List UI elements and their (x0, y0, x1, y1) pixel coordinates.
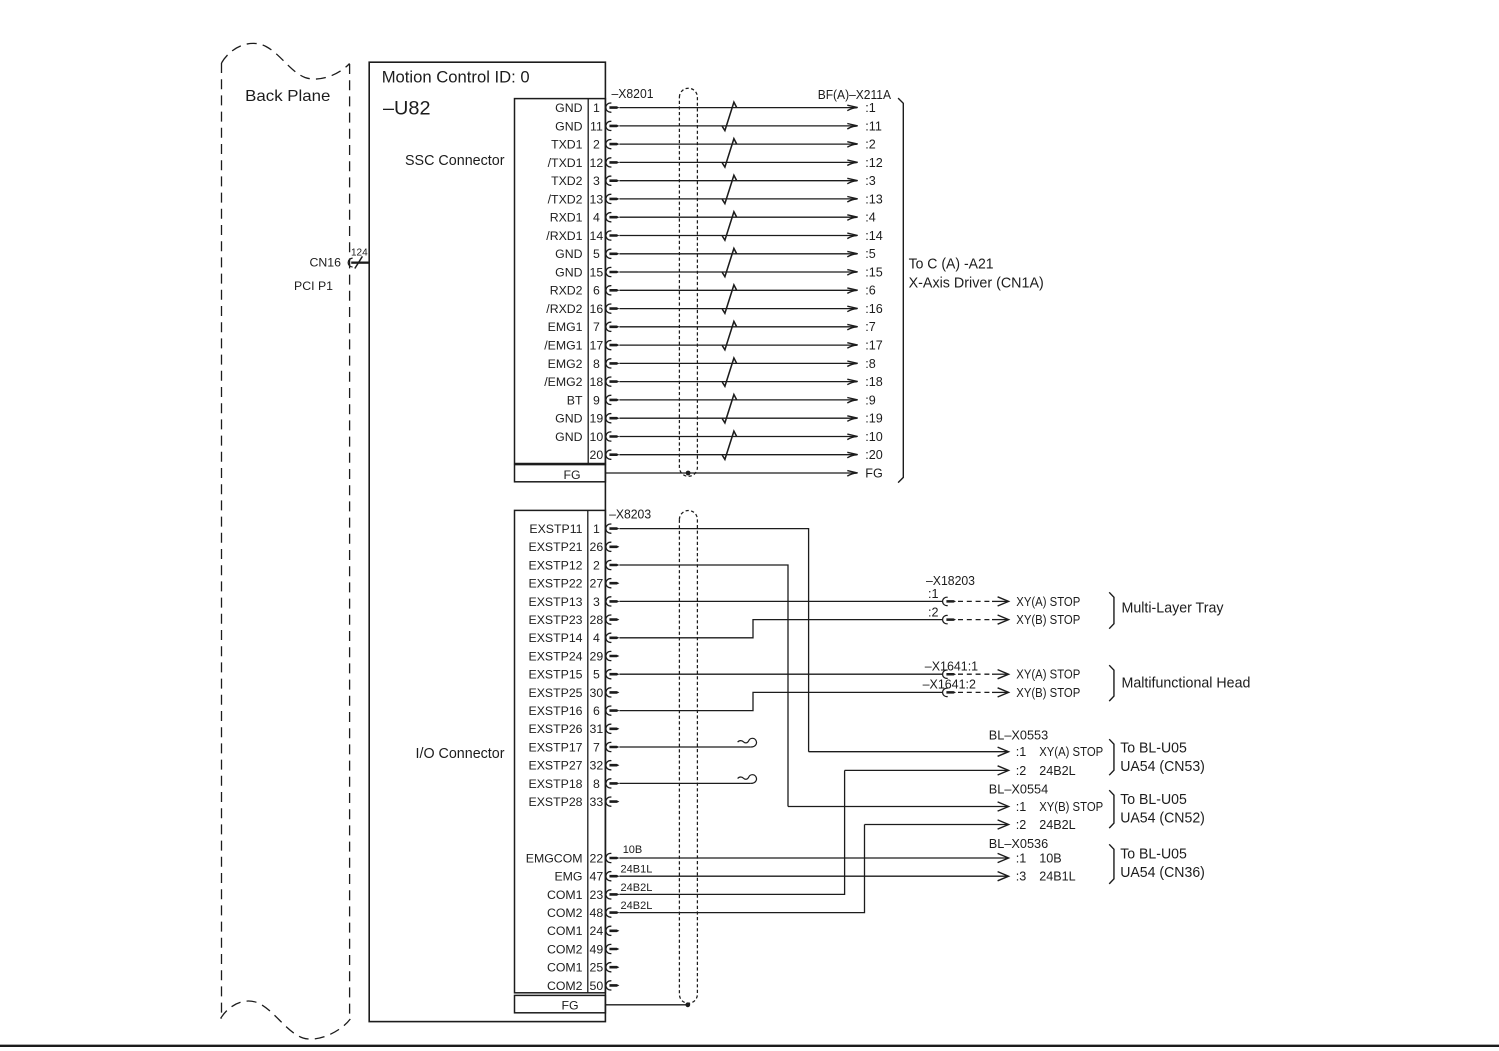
SSC pin 7 EMG1 (548, 320, 600, 334)
net label :12 (865, 156, 883, 170)
wire to BL-X0553:1 (809, 751, 1008, 753)
shield junction dot (685, 1002, 690, 1007)
wire to BL-X0554:2 (865, 824, 1008, 826)
wire EXSTP18 pin8 (cut, coiled) (619, 782, 750, 784)
pair mark pins 8/18 (722, 358, 736, 386)
svg-text:Multi-Layer Tray: Multi-Layer Tray (1122, 600, 1225, 616)
wire EXSTP16 pin6 to X1641:2 (619, 692, 943, 710)
svg-text:CN16: CN16 (310, 256, 342, 270)
pair mark pins 10/20 (722, 431, 736, 459)
socket X1641:1 (943, 670, 948, 678)
svg-text::16: :16 (865, 302, 883, 316)
pair mark pins 2/12 (722, 139, 736, 167)
wire to BL-X0554:1 (788, 806, 1008, 808)
svg-text:15: 15 (590, 265, 604, 279)
svg-text:11: 11 (590, 119, 603, 133)
svg-text:RXD2: RXD2 (550, 284, 583, 298)
I/O pin 25 COM1 (547, 961, 603, 975)
svg-text:XY(A) STOP: XY(A) STOP (1039, 745, 1103, 759)
SSC pin 8 EMG2 (548, 357, 600, 371)
svg-text:4: 4 (593, 631, 600, 645)
svg-text:5: 5 (593, 247, 600, 261)
svg-text:–X1641:2: –X1641:2 (923, 677, 976, 692)
page frame bottom line (0, 1045, 1499, 1047)
svg-text:/TXD2: /TXD2 (548, 192, 583, 206)
svg-text:EXSTP24: EXSTP24 (529, 649, 583, 663)
svg-text:24B2L: 24B2L (1039, 764, 1075, 778)
net label :14 (865, 229, 883, 243)
svg-text:33: 33 (590, 795, 604, 809)
svg-text:COM2: COM2 (547, 979, 583, 993)
net label :13 (865, 192, 883, 206)
svg-text:124: 124 (351, 248, 368, 259)
pair mark pins 1/11 (722, 102, 736, 130)
svg-text:–X18203: –X18203 (926, 573, 975, 588)
svg-text:24: 24 (590, 924, 604, 938)
svg-text:–X1641:1: –X1641:1 (925, 658, 978, 673)
bracket to BL-U05 UA54 CN52 (1109, 790, 1114, 828)
svg-text:14: 14 (590, 229, 604, 243)
cable shield X8201 (dashed oval) (679, 88, 697, 476)
Back Plane bottom wavy edge (221, 1001, 351, 1039)
svg-text:25: 25 (590, 961, 604, 975)
svg-text:/EMG2: /EMG2 (544, 375, 582, 389)
svg-text:–X8201: –X8201 (612, 86, 654, 101)
svg-text:FG: FG (561, 999, 578, 1013)
svg-text:To BL-U05: To BL-U05 (1120, 792, 1187, 808)
svg-text:22: 22 (590, 851, 604, 865)
net label :16 (865, 302, 883, 316)
destination bracket X-axis driver (898, 98, 903, 483)
SSC pin 12 /TXD1 (548, 156, 604, 170)
svg-text:EMGCOM: EMGCOM (526, 851, 583, 865)
svg-text:To C (A) -A21: To C (A) -A21 (909, 256, 994, 272)
svg-text:PCI P1: PCI P1 (294, 279, 333, 293)
I/O pin 4 EXSTP14 (529, 631, 600, 645)
I/O pin 32 EXSTP27 (529, 759, 604, 773)
svg-text:1: 1 (593, 101, 600, 115)
SSC pin 16 /RXD2 (546, 302, 603, 316)
socket X1641:2 (943, 688, 948, 696)
bracket multi-layer tray (1109, 592, 1114, 628)
I/O pin 5 EXSTP15 (529, 668, 600, 682)
I/O pin 30 EXSTP25 (529, 686, 604, 700)
svg-text:8: 8 (593, 357, 600, 371)
svg-text:EXSTP15: EXSTP15 (529, 668, 583, 682)
shield junction dot (686, 471, 691, 476)
svg-text::13: :13 (865, 192, 883, 206)
svg-text:6: 6 (593, 704, 600, 718)
SSC pin 20 (590, 448, 604, 462)
svg-text:COM1: COM1 (547, 888, 583, 902)
I/O pin 26 EXSTP21 (529, 540, 604, 554)
svg-text:To BL-U05: To BL-U05 (1120, 847, 1187, 863)
pair mark pins 4/14 (722, 212, 736, 240)
net label :7 (865, 320, 876, 334)
svg-text:COM1: COM1 (547, 961, 583, 975)
I/O pin 29 EXSTP24 (529, 649, 604, 663)
svg-text::7: :7 (865, 320, 876, 334)
cable shield X8203 (dashed oval) (679, 511, 697, 1004)
svg-text:EMG1: EMG1 (548, 320, 583, 334)
wire pin 8 to X211A:8 (619, 362, 856, 364)
svg-text:EXSTP12: EXSTP12 (529, 558, 583, 572)
wire EMG pin47 to BL-X0536:3 (619, 875, 1007, 877)
svg-text:COM2: COM2 (547, 906, 583, 920)
net label :5 (865, 247, 876, 261)
SSC pin 14 /RXD1 (546, 229, 603, 243)
wire pin 20 to X211A:20 (619, 454, 856, 456)
wire EXSTP17 pin7 (cut, coiled) (619, 746, 750, 748)
svg-text:GND: GND (555, 247, 582, 261)
net label :11 (865, 119, 882, 133)
svg-text:8: 8 (593, 777, 600, 791)
svg-text::3: :3 (865, 174, 876, 188)
svg-text::10: :10 (865, 430, 883, 444)
svg-text:49: 49 (590, 942, 604, 956)
I/O pin 23 COM1 (547, 888, 603, 902)
svg-text:EXSTP25: EXSTP25 (529, 686, 583, 700)
Motion Control board box U82 (369, 62, 605, 1021)
FG wire to shield X8203 (605, 1004, 687, 1006)
svg-text:SSC Connector: SSC Connector (405, 153, 505, 169)
svg-text:TXD1: TXD1 (551, 138, 583, 152)
svg-text:9: 9 (593, 393, 600, 407)
svg-text:–U82: –U82 (383, 98, 431, 120)
svg-text:COM2: COM2 (547, 942, 583, 956)
wire pin 4 to X211A:4 (619, 216, 856, 218)
wire EXSTP11 pin1 to BL-X0553:1 (619, 529, 808, 752)
svg-text:2: 2 (593, 558, 600, 572)
Back Plane top wavy edge (222, 43, 350, 79)
wire COM1 pin23 to BL-X0553:2 (619, 770, 844, 894)
svg-text:EXSTP18: EXSTP18 (529, 777, 583, 791)
wire pin 12 to X211A:12 (619, 161, 856, 163)
svg-text:RXD1: RXD1 (550, 211, 583, 225)
net label :1 (865, 101, 876, 115)
I/O pin 24 COM1 (547, 924, 603, 938)
svg-text:EXSTP26: EXSTP26 (529, 722, 583, 736)
svg-text:50: 50 (590, 979, 604, 993)
SSC pin 10 GND (555, 430, 603, 444)
svg-text:16: 16 (590, 302, 604, 316)
wire pin 13 to X211A:13 (619, 198, 856, 200)
wire pin 1 to X211A:1 (619, 107, 856, 109)
wire pin 15 to X211A:15 (619, 271, 856, 273)
I/O pin 33 EXSTP28 (529, 795, 604, 809)
wire pin 9 to X211A:9 (619, 399, 856, 401)
svg-text::6: :6 (865, 284, 876, 298)
svg-text:24B2L: 24B2L (1039, 818, 1075, 832)
SSC FG cell (515, 465, 606, 482)
svg-text:EXSTP11: EXSTP11 (529, 522, 582, 536)
net label :20 (865, 448, 883, 462)
pair mark pins 9/19 (722, 395, 736, 423)
wire EXSTP12 pin2 to BL-X0554:1 (619, 565, 788, 807)
svg-text:/TXD1: /TXD1 (548, 156, 583, 170)
svg-text:EXSTP17: EXSTP17 (529, 740, 583, 754)
I/O pin 47 EMG (554, 870, 603, 884)
net label :10 (865, 430, 883, 444)
svg-text::1: :1 (1016, 745, 1027, 759)
net label :4 (865, 211, 876, 225)
svg-text::4: :4 (865, 211, 876, 225)
svg-text::1: :1 (865, 101, 876, 115)
svg-text::18: :18 (865, 375, 883, 389)
SSC connector block X8201 (515, 99, 606, 464)
svg-text:EXSTP21: EXSTP21 (529, 540, 583, 554)
svg-text:EXSTP22: EXSTP22 (529, 577, 583, 591)
svg-text:10: 10 (590, 430, 604, 444)
I/O connector label/number separator (587, 510, 589, 992)
svg-text:3: 3 (593, 174, 600, 188)
svg-text:/RXD1: /RXD1 (546, 229, 582, 243)
pair mark pins 6/16 (722, 285, 736, 313)
svg-text:GND: GND (555, 430, 582, 444)
wire pin 14 to X211A:14 (619, 235, 856, 237)
svg-text:17: 17 (590, 339, 604, 353)
wire pin 16 to X211A:16 (619, 308, 856, 310)
I/O pin 1 EXSTP11 (529, 522, 600, 536)
wire EXSTP15 pin5 to X1641:1 (619, 673, 943, 675)
net label :18 (865, 375, 883, 389)
svg-text::1: :1 (1016, 851, 1027, 865)
SSC pin 1 GND (555, 101, 600, 115)
socket X18203:2 (943, 615, 948, 623)
svg-text:BT: BT (567, 393, 583, 407)
wire pin 10 to X211A:10 (619, 436, 856, 438)
I/O pin 48 COM2 (547, 906, 603, 920)
wire pin 18 to X211A:18 (619, 381, 856, 383)
SSC pin 13 /TXD2 (548, 192, 604, 206)
net label :3 (865, 174, 876, 188)
svg-text::15: :15 (865, 265, 883, 279)
net label :6 (865, 284, 876, 298)
wire EXSTP14 pin4 to X18203:2 (619, 620, 943, 638)
svg-text:UA54 (CN52): UA54 (CN52) (1120, 811, 1205, 827)
dashed wire to XY(A) STOP (958, 673, 991, 675)
svg-text:5: 5 (593, 668, 600, 682)
svg-text:XY(B) STOP: XY(B) STOP (1016, 613, 1080, 627)
svg-text:EXSTP27: EXSTP27 (529, 759, 583, 773)
svg-text::11: :11 (865, 119, 882, 133)
svg-text::1: :1 (1016, 800, 1027, 814)
svg-text:23: 23 (590, 888, 604, 902)
svg-text:GND: GND (555, 101, 582, 115)
svg-text:10B: 10B (1039, 851, 1061, 865)
Back Plane right dashed edge (349, 64, 351, 1019)
svg-text:7: 7 (593, 740, 600, 754)
svg-text:–X8203: –X8203 (609, 507, 651, 522)
svg-text:BL–X0553: BL–X0553 (989, 728, 1048, 743)
CN16 slash (bus width) (355, 256, 363, 268)
svg-text:UA54 (CN36): UA54 (CN36) (1120, 865, 1205, 881)
SSC pin 5 GND (555, 247, 600, 261)
dashed wire to XY(A) STOP (958, 600, 991, 602)
SSC pin 4 RXD1 (550, 211, 600, 225)
Back Plane left dashed edge (221, 63, 223, 1019)
svg-text::2: :2 (1016, 764, 1027, 778)
SSC pin 9 BT (567, 393, 600, 407)
svg-text:GND: GND (555, 412, 582, 426)
I/O pin 50 COM2 (547, 979, 603, 993)
wire pin 6 to X211A:6 (619, 289, 856, 291)
svg-text:EXSTP16: EXSTP16 (529, 704, 583, 718)
svg-text:24B1L: 24B1L (1039, 870, 1075, 884)
svg-text::3: :3 (1016, 870, 1027, 884)
svg-text:EMG2: EMG2 (548, 357, 583, 371)
svg-text:EMG: EMG (554, 870, 582, 884)
SSC connector label/number separator (587, 99, 589, 464)
I/O pin 22 EMGCOM (526, 851, 604, 865)
wire COM2 pin48 to BL-X0554:2 (619, 825, 864, 913)
svg-text:Motion Control ID: 0: Motion Control ID: 0 (382, 68, 530, 87)
svg-text:GND: GND (555, 119, 582, 133)
svg-text:1: 1 (593, 522, 600, 536)
SSC pin 3 TXD2 (551, 174, 600, 188)
net label :19 (865, 412, 883, 426)
I/O pin 3 EXSTP13 (529, 595, 600, 609)
svg-text:GND: GND (555, 265, 582, 279)
svg-text::19: :19 (865, 412, 883, 426)
svg-text::8: :8 (865, 357, 876, 371)
svg-text:30: 30 (590, 686, 604, 700)
svg-text:UA54 (CN53): UA54 (CN53) (1120, 759, 1205, 775)
FG wire to shield/X211A FG (605, 472, 856, 474)
bracket to BL-U05 UA54 CN53 (1109, 739, 1114, 775)
pair mark pins 7/17 (722, 321, 736, 349)
SSC pin 2 TXD1 (551, 138, 600, 152)
svg-text::9: :9 (865, 393, 876, 407)
wire EXSTP13 pin3 to X18203:1 (619, 600, 943, 602)
svg-text::14: :14 (865, 229, 883, 243)
net label :9 (865, 393, 876, 407)
svg-text:24B2L: 24B2L (621, 900, 653, 912)
svg-text:BL–X0536: BL–X0536 (989, 836, 1048, 851)
SSC pin 17 /EMG1 (544, 339, 603, 353)
svg-text:12: 12 (590, 156, 604, 170)
svg-text:32: 32 (590, 759, 604, 773)
svg-text:2: 2 (593, 138, 600, 152)
svg-text:48: 48 (590, 906, 604, 920)
svg-text:19: 19 (590, 412, 604, 426)
svg-text::20: :20 (865, 448, 883, 462)
svg-text:/EMG1: /EMG1 (544, 339, 582, 353)
svg-text:X-Axis Driver (CN1A): X-Axis Driver (CN1A) (909, 275, 1044, 291)
I/O pin 6 EXSTP16 (529, 704, 600, 718)
svg-text:31: 31 (590, 722, 604, 736)
SSC pin 19 GND (555, 412, 603, 426)
bracket maltifunctional head (1109, 665, 1114, 701)
wire pin 7 to X211A:7 (619, 326, 856, 328)
dashed wire to XY(B) STOP (958, 691, 991, 693)
net label :2 (865, 138, 876, 152)
svg-text:6: 6 (593, 284, 600, 298)
I/O pin 27 EXSTP22 (529, 577, 604, 591)
SSC pin 6 RXD2 (550, 284, 600, 298)
wire pin 5 to X211A:5 (619, 253, 856, 255)
svg-text:TXD2: TXD2 (551, 174, 583, 188)
svg-text:47: 47 (590, 870, 604, 884)
svg-text:Back Plane: Back Plane (245, 88, 330, 105)
svg-text:EXSTP28: EXSTP28 (529, 795, 583, 809)
I/O pin 8 EXSTP18 (529, 777, 600, 791)
bracket to BL-U05 UA54 CN36 (1109, 844, 1114, 884)
svg-text:26: 26 (590, 540, 604, 554)
svg-text:FG: FG (865, 466, 883, 480)
net label :15 (865, 265, 883, 279)
SSC pin 15 GND (555, 265, 603, 279)
svg-text:FG: FG (563, 468, 580, 482)
svg-text:Maltifunctional Head: Maltifunctional Head (1122, 675, 1251, 691)
svg-text:XY(B) STOP: XY(B) STOP (1016, 686, 1080, 700)
svg-text:29: 29 (590, 649, 604, 663)
svg-text::5: :5 (865, 247, 876, 261)
svg-text:EXSTP13: EXSTP13 (529, 595, 583, 609)
svg-text::2: :2 (1016, 818, 1027, 832)
svg-text:27: 27 (590, 577, 604, 591)
pair mark pins 5/15 (722, 248, 736, 276)
svg-text:EXSTP14: EXSTP14 (529, 631, 583, 645)
I/O FG cell (515, 995, 606, 1012)
wire to BL-X0553:2 (845, 769, 1008, 771)
wire pin 2 to X211A:2 (619, 143, 856, 145)
I/O pin 28 EXSTP23 (529, 613, 604, 627)
wire pin 3 to X211A:3 (619, 180, 856, 182)
svg-text:10B: 10B (623, 844, 643, 856)
SSC pin 18 /EMG2 (544, 375, 603, 389)
svg-text:24B1L: 24B1L (621, 863, 653, 875)
svg-text:18: 18 (590, 375, 604, 389)
pigtail pin7 (738, 738, 757, 747)
I/O pin 2 EXSTP12 (529, 558, 600, 572)
svg-text:XY(B) STOP: XY(B) STOP (1039, 800, 1103, 814)
svg-text:28: 28 (590, 613, 604, 627)
svg-text:I/O Connector: I/O Connector (416, 746, 505, 762)
svg-text:To BL-U05: To BL-U05 (1120, 740, 1187, 756)
svg-text::2: :2 (928, 605, 939, 619)
svg-text:BF(A)–X211A: BF(A)–X211A (818, 87, 892, 102)
pigtail pin8 (738, 775, 757, 784)
wire pin 17 to X211A:17 (619, 344, 856, 346)
socket X18203:1 (943, 597, 948, 605)
svg-text:13: 13 (590, 192, 604, 206)
I/O pin 7 EXSTP17 (529, 740, 600, 754)
svg-text:EXSTP23: EXSTP23 (529, 613, 583, 627)
svg-text::1: :1 (928, 587, 939, 601)
net label :8 (865, 357, 876, 371)
svg-text::2: :2 (865, 138, 876, 152)
I/O connector block X8203 (515, 510, 606, 992)
svg-text:7: 7 (593, 320, 600, 334)
svg-text:COM1: COM1 (547, 924, 583, 938)
I/O pin 31 EXSTP26 (529, 722, 604, 736)
svg-text::17: :17 (865, 339, 883, 353)
pair mark pins 3/13 (722, 175, 736, 203)
wire pin 19 to X211A:19 (619, 417, 856, 419)
svg-text:24B2L: 24B2L (621, 882, 653, 894)
CN16 backplane connector (348, 258, 352, 267)
wire EMGCOM pin22 to BL-X0536:1 (619, 857, 1007, 859)
svg-text:BL–X0554: BL–X0554 (989, 782, 1048, 797)
net label :17 (865, 339, 883, 353)
dashed wire to XY(B) STOP (958, 619, 991, 621)
SSC pin 11 GND (555, 119, 603, 133)
svg-text::12: :12 (865, 156, 883, 170)
svg-text:3: 3 (593, 595, 600, 609)
svg-text:20: 20 (590, 448, 604, 462)
svg-text:XY(A) STOP: XY(A) STOP (1016, 668, 1080, 682)
